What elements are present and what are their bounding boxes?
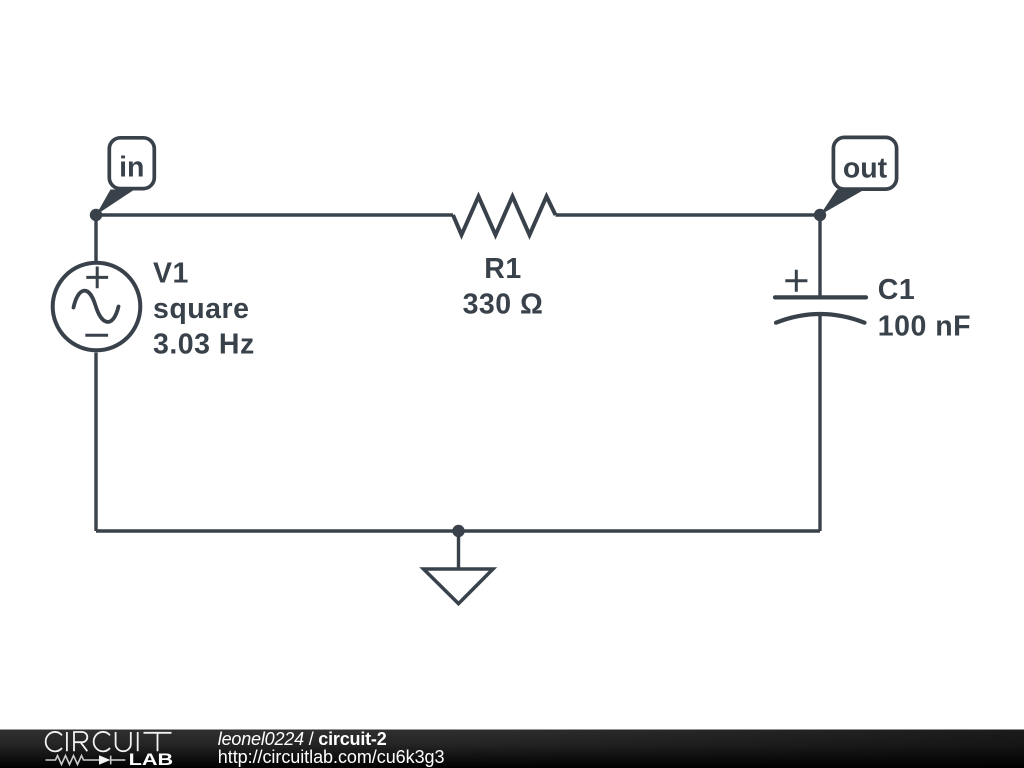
svg-text:330 Ω: 330 Ω	[463, 288, 544, 320]
svg-text:out: out	[843, 153, 888, 185]
svg-text:V1: V1	[153, 258, 189, 290]
svg-text:in: in	[119, 152, 144, 184]
svg-text:R1: R1	[484, 253, 521, 285]
svg-text:C1: C1	[878, 274, 915, 306]
svg-text:square: square	[153, 293, 249, 325]
svg-text:3.03 Hz: 3.03 Hz	[153, 329, 255, 361]
svg-text:http://circuitlab.com/cu6k3g3: http://circuitlab.com/cu6k3g3	[218, 747, 445, 767]
svg-text:100 nF: 100 nF	[878, 310, 971, 342]
svg-text:LAB: LAB	[129, 750, 174, 768]
